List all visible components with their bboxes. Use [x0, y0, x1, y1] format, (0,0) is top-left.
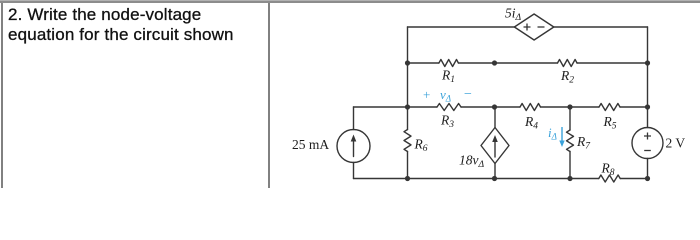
svg-text:R4: R4 [524, 114, 538, 132]
svg-text:−: − [464, 87, 472, 102]
svg-text:R3: R3 [440, 113, 454, 131]
svg-text:R5: R5 [603, 114, 617, 132]
svg-text:2 V: 2 V [666, 136, 686, 151]
svg-text:5iΔ: 5iΔ [505, 6, 522, 24]
svg-text:R7: R7 [576, 134, 591, 152]
svg-text:vΔ: vΔ [440, 87, 451, 104]
svg-text:R1: R1 [441, 68, 455, 86]
svg-text:iΔ: iΔ [548, 125, 557, 142]
svg-text:R8: R8 [601, 161, 615, 179]
svg-text:18vΔ: 18vΔ [459, 153, 485, 171]
svg-text:+: + [423, 87, 430, 102]
svg-text:25 mA: 25 mA [292, 137, 329, 152]
svg-text:R6: R6 [414, 137, 428, 155]
svg-text:R2: R2 [560, 68, 574, 86]
